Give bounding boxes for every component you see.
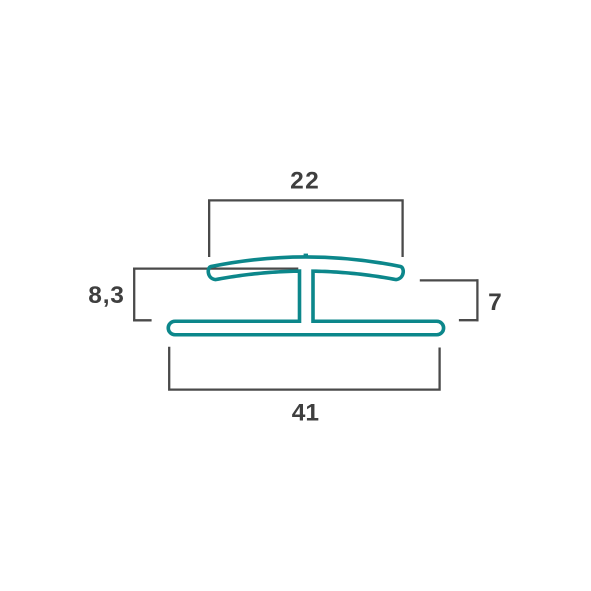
svg-text:22: 22 xyxy=(290,168,320,195)
dimension 7 bottom extension line xyxy=(459,319,479,321)
dimension 8,3 vertical xyxy=(133,268,135,322)
dimension 8,3 bottom extension line xyxy=(133,319,152,321)
dimension 41 bracket xyxy=(169,347,439,390)
svg-text:7: 7 xyxy=(488,289,502,316)
dimension 7 vertical xyxy=(476,279,478,321)
svg-text:41: 41 xyxy=(292,400,319,427)
dimension 8,3 top extension line xyxy=(133,267,298,269)
dimension 22 bracket xyxy=(209,200,402,257)
H-profile cross-section outline xyxy=(168,257,443,335)
dimension 7 top extension line xyxy=(420,279,479,281)
top locating tab xyxy=(304,254,308,258)
svg-text:8,3: 8,3 xyxy=(88,282,124,309)
